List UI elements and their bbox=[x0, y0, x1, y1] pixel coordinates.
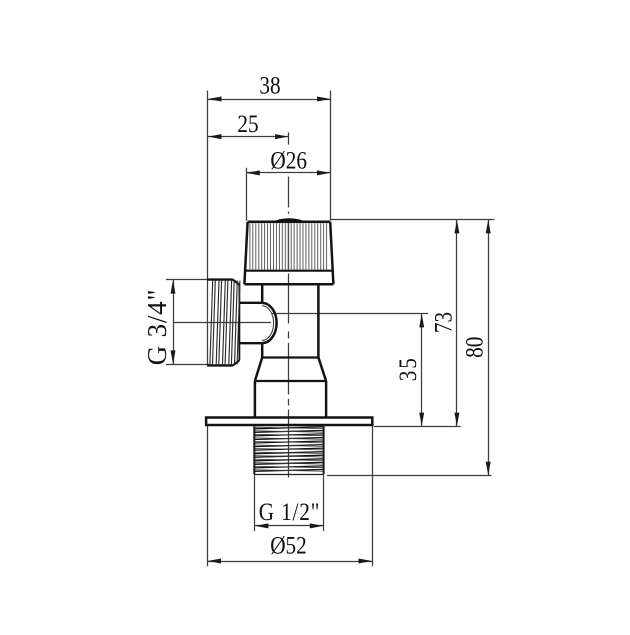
base right edge bbox=[325, 381, 328, 417]
port horizontal centerline bbox=[174, 322, 271, 324]
arrow 80 down bbox=[486, 462, 491, 476]
arrow G3/4 down bbox=[171, 350, 176, 364]
extension line G3/4 bottom bbox=[166, 364, 210, 366]
left thread ridges bbox=[210, 281, 240, 365]
arrow G1/2 right bbox=[310, 523, 324, 528]
dimension line 80 bbox=[488, 220, 490, 476]
bottom thread ridges bbox=[254, 427, 324, 472]
svg-text:35: 35 bbox=[394, 356, 422, 381]
dimension line 38 bbox=[208, 99, 331, 101]
dimension line 73 bbox=[456, 220, 458, 427]
arrow 35 up bbox=[419, 314, 424, 328]
centerline tick at 25 dim bbox=[288, 132, 290, 144]
body column right edge bbox=[317, 284, 320, 357]
dimension line O52 bbox=[207, 561, 372, 563]
extension line G1/2 left bbox=[254, 475, 256, 531]
arrow O52 right bbox=[359, 559, 373, 564]
body column left edge lower bbox=[261, 343, 264, 358]
extension line flange bottom (y=426.4) bbox=[374, 426, 461, 428]
cone left slant bbox=[255, 358, 262, 382]
left thread bottom edge bbox=[207, 364, 233, 366]
dimension line 25 bbox=[208, 136, 289, 138]
extension line O52 right bbox=[372, 426, 374, 567]
svg-text:Ø52: Ø52 bbox=[270, 532, 307, 560]
body column left edge upper bbox=[261, 284, 264, 303]
svg-text:25: 25 bbox=[237, 110, 258, 138]
side port neck bottom bbox=[239, 342, 262, 344]
left thread top chamfer bbox=[233, 280, 239, 285]
left thread top edge bbox=[207, 278, 233, 280]
dimension line 35 bbox=[421, 314, 423, 427]
svg-text:Ø26: Ø26 bbox=[270, 147, 307, 175]
svg-text:G 3/4": G 3/4" bbox=[142, 289, 172, 366]
left thread right edge bbox=[238, 285, 240, 360]
arrow O52 left bbox=[208, 559, 222, 564]
dimension line G3/4 bbox=[173, 280, 175, 364]
dimension line O26 bbox=[246, 172, 331, 174]
svg-text:38: 38 bbox=[259, 72, 280, 100]
extension line O52 left bbox=[207, 426, 209, 567]
handle knurl bottom line bbox=[245, 270, 332, 272]
extension line mid (y=313.6) bbox=[272, 313, 428, 315]
bottom thread left edge bbox=[253, 426, 255, 474]
extension line G3/4 top bbox=[166, 279, 208, 281]
dimension line G1/2 bbox=[255, 525, 324, 527]
bottom thread right edge bbox=[323, 426, 325, 474]
vertical centerline bbox=[288, 177, 290, 478]
arrow G1/2 left bbox=[255, 523, 269, 528]
handle top edge bbox=[248, 221, 331, 224]
arrow G3/4 up bbox=[171, 280, 176, 294]
cone right slant bbox=[318, 358, 326, 382]
bottom thread end edge bbox=[254, 474, 324, 476]
extension line top right (y=219.6) bbox=[331, 219, 494, 221]
arrow O26 right bbox=[317, 170, 331, 175]
arrow 73 down bbox=[454, 413, 459, 427]
extension line G1/2 right bbox=[323, 475, 325, 531]
arrow 35 down bbox=[419, 413, 424, 427]
extension line thread bottom (y=475.4) bbox=[327, 475, 492, 477]
svg-text:80: 80 bbox=[461, 337, 489, 358]
handle stem cap bbox=[272, 218, 306, 223]
arrow 80 up bbox=[486, 220, 491, 234]
base left edge bbox=[254, 381, 257, 417]
handle knurling bbox=[250, 223, 327, 269]
side port dome outer bbox=[262, 303, 277, 343]
handle right side bbox=[330, 222, 333, 284]
arrow 25 right bbox=[275, 134, 289, 139]
cone top edge bbox=[262, 356, 318, 358]
handle left side bbox=[244, 222, 247, 284]
arrow O26 left bbox=[246, 170, 259, 175]
arrow 38 left bbox=[208, 97, 222, 102]
svg-text:73: 73 bbox=[430, 312, 458, 333]
extension line right of 38/O26 (x=330.8) bbox=[330, 91, 332, 221]
side port dome inner bbox=[262, 306, 274, 341]
svg-text:G 1/2": G 1/2" bbox=[259, 498, 321, 526]
left thread bottom chamfer bbox=[233, 360, 239, 365]
arrow 25 left bbox=[208, 134, 222, 139]
arrow 73 up bbox=[454, 220, 459, 234]
handle bottom edge bbox=[244, 283, 333, 286]
cone bottom edge bbox=[255, 380, 326, 382]
extension line O26 left (x=246) bbox=[246, 168, 248, 221]
flange bbox=[206, 418, 372, 426]
side port neck top bbox=[239, 302, 262, 304]
arrow 38 right bbox=[317, 97, 331, 102]
extension line left (x=207.7, from dim 38 down to thread top) bbox=[207, 91, 209, 366]
